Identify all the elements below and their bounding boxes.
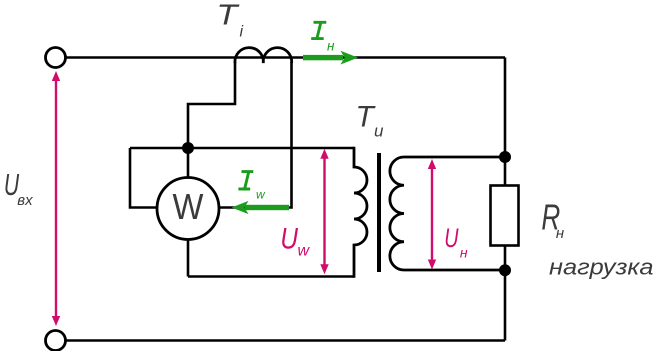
arrow U_w (voltage on wattmeter coil): [320, 149, 328, 274]
svg-text:i: i: [240, 23, 244, 40]
junction dot load top: [499, 151, 511, 163]
arrow U_n (load voltage): [428, 159, 436, 270]
svg-text:н: н: [556, 225, 564, 242]
svg-text:w: w: [256, 188, 266, 202]
wire left loop to wattmeter left terminal: [130, 148, 157, 208]
wire bottom: [66, 339, 506, 342]
wire wattmeter top terminal: [187, 148, 190, 178]
svg-text:U: U: [280, 221, 298, 255]
svg-text:W: W: [173, 188, 204, 228]
voltage transformer T_u secondary winding: [390, 157, 505, 270]
svg-text:н: н: [327, 38, 335, 53]
wire top (input to load): [66, 56, 506, 59]
svg-text:н: н: [460, 245, 468, 261]
current transformer T_i winding: [235, 48, 292, 63]
svg-text:U: U: [444, 224, 459, 254]
wire wattmeter bottom terminal: [187, 239, 190, 277]
wire bottom of voltage coil: [188, 275, 354, 278]
wire right side: [504, 58, 507, 341]
label I_w: [238, 172, 253, 189]
terminal top-left: [46, 48, 66, 68]
voltage transformer T_u primary winding: [354, 147, 367, 278]
wire T_i left foot jog to junction: [188, 62, 235, 148]
svg-text:w: w: [298, 243, 311, 260]
arrow I_w (wattmeter current): [232, 201, 290, 214]
svg-text:вх: вх: [17, 192, 33, 209]
label I_n: [311, 22, 326, 38]
resistor R_n: [491, 186, 519, 246]
svg-text:u: u: [374, 121, 384, 140]
wire voltage bus: [130, 147, 354, 150]
svg-text:T: T: [216, 0, 240, 31]
junction dot load bottom: [499, 264, 511, 276]
wire T_i right foot down to wattmeter current coil: [220, 62, 292, 208]
svg-text:нагрузка: нагрузка: [549, 255, 654, 280]
terminal bottom-left: [46, 331, 66, 351]
arrow I_n (load current): [303, 51, 358, 65]
arrow U_vx (input voltage): [52, 71, 60, 326]
junction dot at wattmeter bus: [182, 142, 194, 154]
transformer T_u core: [377, 153, 381, 272]
wattmeter U1: [157, 178, 219, 240]
